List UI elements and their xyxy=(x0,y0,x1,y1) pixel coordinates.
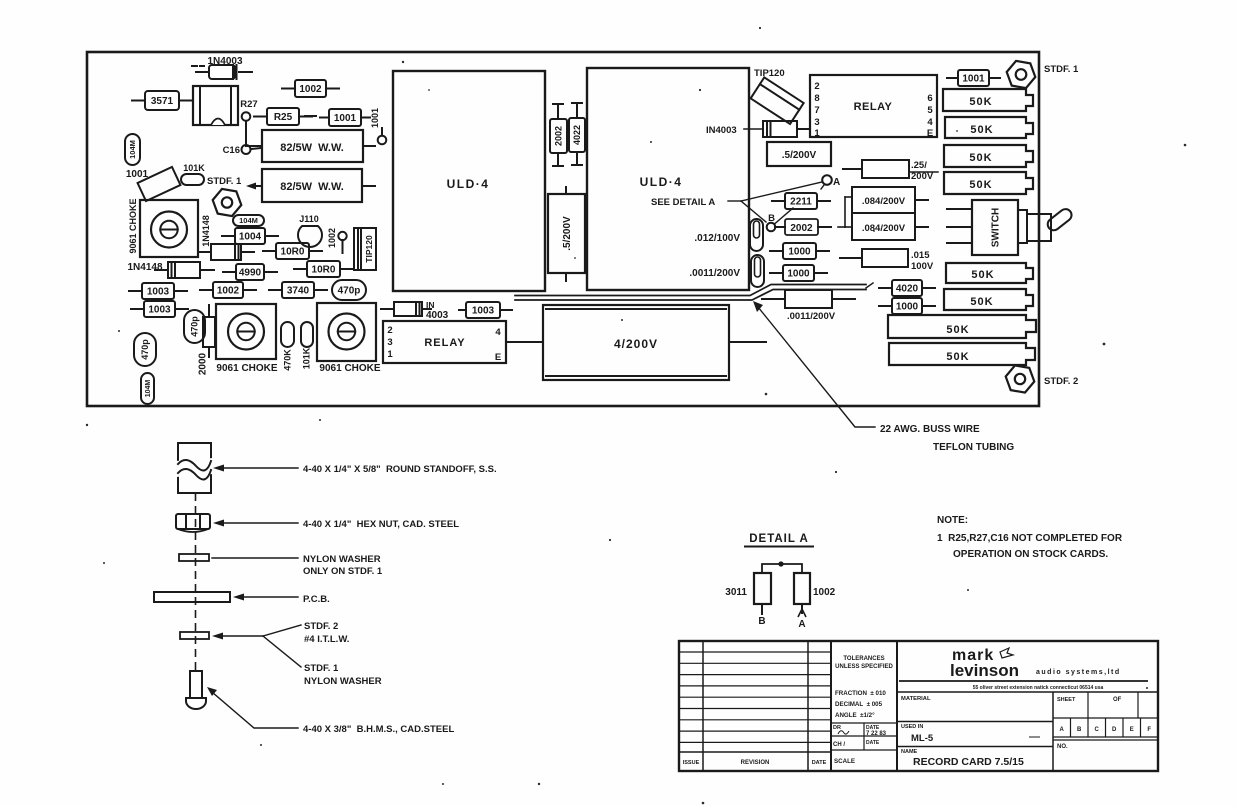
svg-text:50K: 50K xyxy=(946,324,969,336)
svg-text:STDF. 2: STDF. 2 xyxy=(1044,376,1078,387)
capacitor 104M (vertical, upper-left) xyxy=(125,134,140,165)
svg-text:4022: 4022 xyxy=(572,125,582,145)
resistor 82/5W W.W. (upper) xyxy=(246,130,375,162)
svg-text:1001: 1001 xyxy=(370,108,380,128)
standoff STDF.2 hole xyxy=(1006,365,1035,392)
svg-text:101K: 101K xyxy=(302,347,312,369)
svg-text:DATE: DATE xyxy=(866,740,880,746)
capacitor .5/200V (vertical) xyxy=(548,187,585,281)
diode 1001 (tilted) xyxy=(126,167,181,201)
choke 9061 (bottom-mid) xyxy=(317,303,381,374)
svg-text:470p: 470p xyxy=(140,339,150,360)
svg-text:B: B xyxy=(1077,727,1082,733)
svg-text:.5/200V: .5/200V xyxy=(782,150,817,161)
svg-text:.084/200V: .084/200V xyxy=(862,223,906,234)
nylon washer (upper) xyxy=(179,554,209,561)
resistor 10R0 (upper) xyxy=(263,243,322,259)
potentiometer 50K #7 (wide) xyxy=(888,315,1036,338)
svg-text:3: 3 xyxy=(814,117,819,128)
svg-text:D: D xyxy=(1112,727,1117,733)
svg-text:1N4148: 1N4148 xyxy=(201,215,211,247)
callout: NYLON WASHER ONLY ON STDF.1 xyxy=(212,554,383,577)
svg-text:104M: 104M xyxy=(128,140,137,159)
round standoff xyxy=(176,443,213,493)
svg-text:2: 2 xyxy=(387,325,392,336)
svg-text:3011: 3011 xyxy=(725,587,747,598)
resistor 2002 xyxy=(775,219,831,235)
svg-text:4/200V: 4/200V xyxy=(614,337,658,351)
callout: 4-40 X 3/8" B.H.M.S., CAD.STEEL xyxy=(207,687,454,735)
callout SEE DETAIL A xyxy=(651,182,822,222)
svg-text:100V: 100V xyxy=(911,261,934,272)
svg-text:1003: 1003 xyxy=(147,287,170,298)
node B (pad) xyxy=(767,208,793,231)
resistor 10R0 (lower) xyxy=(294,261,353,277)
svg-text:470p: 470p xyxy=(338,286,361,297)
capacitor 470K (vertical) xyxy=(281,322,294,347)
relay (bottom-left) pins 2 3 1 / 4 E xyxy=(383,321,543,363)
capacitor 470p (vertical, mid) xyxy=(184,310,205,343)
svg-text:NO.: NO. xyxy=(1057,744,1068,750)
capacitor (notched body) xyxy=(193,86,238,125)
transistor TIP120 (tilted, top-right) xyxy=(751,68,804,124)
DETAIL A heading xyxy=(745,533,813,547)
standoff STDF.1 hole xyxy=(1007,61,1036,88)
potentiometer 50K #5 xyxy=(946,263,1033,283)
revision table rows xyxy=(679,652,831,752)
svg-text:SWITCH: SWITCH xyxy=(991,208,1002,247)
resistor 1001 (top-right) xyxy=(947,70,1000,86)
resistor 3740 xyxy=(269,282,327,298)
svg-text:470p: 470p xyxy=(190,316,200,337)
svg-text:E: E xyxy=(495,352,501,363)
wire xyxy=(305,115,316,117)
capacitor 2000 xyxy=(198,305,215,375)
svg-text:audio systems,ltd: audio systems,ltd xyxy=(1036,669,1121,676)
title block frame xyxy=(679,641,1158,771)
svg-text:ULD·4: ULD·4 xyxy=(640,175,683,189)
svg-text:1001: 1001 xyxy=(962,74,985,85)
IC ULD-4 (left module) xyxy=(393,71,545,291)
capacitor .084/200V (upper) xyxy=(852,187,928,213)
lock washer (lower) xyxy=(180,632,209,639)
note text xyxy=(937,515,1123,560)
resistor 1002 (detail) xyxy=(794,573,836,613)
svg-text:TIP120: TIP120 xyxy=(754,68,785,79)
A-F letter cells xyxy=(1053,718,1158,737)
svg-text:1002: 1002 xyxy=(217,286,240,297)
svg-text:SEE DETAIL A: SEE DETAIL A xyxy=(651,197,715,208)
resistor 1000 (a) xyxy=(770,243,829,259)
svg-text:4-40 X 1/4" X 5/8" ROUND STAN: 4-40 X 1/4" X 5/8" ROUND STANDOFF, S.S. xyxy=(303,464,497,475)
svg-text:TIP120: TIP120 xyxy=(364,235,374,263)
svg-text:A: A xyxy=(798,619,805,630)
svg-text:NOTE:: NOTE: xyxy=(937,515,968,526)
capacitor 101K (vertical) xyxy=(301,322,313,347)
svg-text:1002: 1002 xyxy=(299,84,322,95)
capacitor .0011/200V (pill pair lower) xyxy=(689,255,764,287)
svg-text:OPERATION ON STOCK CARDS.: OPERATION ON STOCK CARDS. xyxy=(953,549,1108,560)
standoff hole STDF.1 (left) xyxy=(213,189,242,216)
resistor 1002 xyxy=(282,80,339,97)
svg-text:55 oliver street extension n: 55 oliver street extension natick connec… xyxy=(973,685,1104,691)
svg-text:9061 CHOKE: 9061 CHOKE xyxy=(128,198,138,253)
svg-text:E: E xyxy=(1130,727,1134,733)
svg-text:#4 I.T.L.W.: #4 I.T.L.W. xyxy=(304,634,349,645)
svg-text:4003: 4003 xyxy=(426,310,449,321)
wire bracket (left of .084 caps) xyxy=(838,197,852,227)
svg-text:USED IN: USED IN xyxy=(901,724,923,730)
node 1002 (vertical label with pad) xyxy=(327,228,346,253)
svg-text:REVISION: REVISION xyxy=(741,760,770,766)
hex nut xyxy=(176,514,210,532)
material / sheet cells xyxy=(901,692,1158,718)
svg-text:R25: R25 xyxy=(274,112,293,123)
svg-text:SHEET: SHEET xyxy=(1057,697,1076,703)
svg-text:50K: 50K xyxy=(946,351,969,363)
svg-text:NYLON WASHER: NYLON WASHER xyxy=(304,676,382,687)
svg-text:1N4148: 1N4148 xyxy=(127,262,162,273)
wire 22 AWG buss (double run) xyxy=(515,283,873,300)
no. cell xyxy=(1053,740,1158,750)
P.C.B. cross-section xyxy=(154,592,230,602)
centerline (dashed) xyxy=(195,493,197,672)
svg-text:DATE: DATE xyxy=(812,760,827,766)
svg-text:7: 7 xyxy=(814,105,819,116)
mark levinson logo xyxy=(897,647,1158,692)
svg-text:E: E xyxy=(927,128,933,139)
svg-text:DR: DR xyxy=(833,725,841,731)
node (junction dot) xyxy=(778,561,783,566)
svg-text:TEFLON TUBING: TEFLON TUBING xyxy=(933,442,1014,453)
svg-text:4: 4 xyxy=(495,327,501,338)
callout 22 AWG. BUSS WIRE / TEFLON TUBING xyxy=(753,301,1014,453)
capacitor .5/200V (top-right) xyxy=(767,142,831,166)
svg-text:RELAY: RELAY xyxy=(424,337,465,349)
capacitor .012/100V (pill pair upper) xyxy=(694,219,763,251)
svg-text:4990: 4990 xyxy=(239,268,262,279)
callout: 4-40 X 1/4" HEX NUT, CAD. STEEL xyxy=(213,519,459,530)
svg-text:1000: 1000 xyxy=(787,269,810,280)
resistor 1003 (row a) xyxy=(129,283,187,299)
svg-text:SCALE: SCALE xyxy=(834,758,855,765)
svg-text:C16: C16 xyxy=(223,145,240,156)
svg-text:1003: 1003 xyxy=(148,305,171,316)
svg-text:UNLESS SPECIFIED: UNLESS SPECIFIED xyxy=(835,664,893,670)
svg-text:.015: .015 xyxy=(911,250,930,261)
svg-text:22 AWG. BUSS WIRE: 22 AWG. BUSS WIRE xyxy=(880,424,980,435)
resistor 2211 xyxy=(772,193,830,209)
relay (top-right) pins 2 8 7 3 1 / 6 5 4 E xyxy=(810,75,937,139)
svg-text:200V: 200V xyxy=(911,171,934,182)
svg-text:STDF. 2: STDF. 2 xyxy=(304,621,338,632)
svg-text:DETAIL A: DETAIL A xyxy=(749,533,809,545)
svg-text:50K: 50K xyxy=(969,96,992,108)
transistor TIP120 (vertical) xyxy=(354,228,376,270)
svg-text:.012/100V: .012/100V xyxy=(694,233,740,244)
choke 9061 (upper-left) xyxy=(128,198,198,257)
resistor 82/5W W.W. (lower) xyxy=(246,169,375,202)
transistor J110 xyxy=(298,214,322,247)
svg-text:4: 4 xyxy=(927,117,933,128)
svg-text:ULD·4: ULD·4 xyxy=(447,177,490,191)
svg-text:B: B xyxy=(758,616,765,627)
diode (right of choke) xyxy=(198,244,254,260)
svg-text:R27: R27 xyxy=(240,99,257,110)
svg-text:NYLON WASHER: NYLON WASHER xyxy=(303,554,381,565)
svg-text:OF: OF xyxy=(1113,697,1122,703)
svg-text:DECIMAL ± 005: DECIMAL ± 005 xyxy=(835,701,883,708)
resistor 1002 (row a) xyxy=(200,282,256,298)
svg-text:3740: 3740 xyxy=(287,286,310,297)
svg-text:1003: 1003 xyxy=(472,306,495,317)
diode 1N4148 (lower) xyxy=(127,262,214,278)
resistor 1001 xyxy=(320,109,370,126)
resistor 3571 xyxy=(132,91,192,110)
resistor 4020 xyxy=(879,280,935,296)
potentiometer 50K #4 xyxy=(944,172,1033,194)
svg-text:STDF. 1: STDF. 1 xyxy=(304,663,339,674)
svg-text:C: C xyxy=(1095,727,1100,733)
svg-text:5: 5 xyxy=(927,105,933,116)
resistor R25 xyxy=(254,108,312,125)
choke 9061 (bottom-left) xyxy=(216,304,278,374)
node R27 xyxy=(240,99,257,145)
svg-text:IN: IN xyxy=(426,300,435,310)
capacitor .015/100V xyxy=(840,249,934,272)
svg-text:1001: 1001 xyxy=(334,113,357,124)
resistor 4990 xyxy=(223,264,277,280)
svg-text:1004: 1004 xyxy=(239,232,262,243)
svg-text:F: F xyxy=(1147,727,1151,733)
callout: P.C.B. xyxy=(233,594,330,606)
tolerances box xyxy=(831,723,897,750)
svg-text:1: 1 xyxy=(387,349,393,360)
capacitor .084/200V (lower) xyxy=(852,213,928,240)
potentiometer 50K #6 xyxy=(944,289,1033,310)
resistor 1000 (c) xyxy=(879,298,935,314)
wire (detail A top) xyxy=(762,564,802,573)
capacitor .0011/200V (bottom) xyxy=(762,290,855,322)
svg-text:2: 2 xyxy=(814,81,819,92)
svg-text:104M: 104M xyxy=(239,216,258,225)
svg-text:ANGLE ±1/2°: ANGLE ±1/2° xyxy=(835,712,875,719)
svg-text:2002: 2002 xyxy=(554,126,564,146)
svg-text:2002: 2002 xyxy=(790,223,813,234)
svg-text:50K: 50K xyxy=(969,179,992,191)
capacitor 470p (horizontal) xyxy=(332,280,366,300)
svg-text:IN4003: IN4003 xyxy=(706,125,737,136)
screw 4-40 B.H.M.S. xyxy=(186,671,206,709)
capacitor 470p (vertical, far-left) xyxy=(134,333,156,366)
svg-text:levinson: levinson xyxy=(950,661,1019,680)
svg-text:104M: 104M xyxy=(145,380,152,398)
svg-text:7 22 83: 7 22 83 xyxy=(866,731,887,737)
svg-text:2211: 2211 xyxy=(790,197,812,208)
resistor 1004 xyxy=(222,228,278,244)
svg-text:ISSUE: ISSUE xyxy=(683,760,700,766)
capacitor 104M (horizontal) xyxy=(233,215,264,226)
svg-text:ML-5: ML-5 xyxy=(911,733,934,744)
svg-text:MATERIAL: MATERIAL xyxy=(901,696,931,702)
svg-text:10R0: 10R0 xyxy=(312,265,336,276)
svg-text:2000: 2000 xyxy=(198,352,209,375)
diode 1N4003 (top) xyxy=(192,56,252,79)
svg-text:FRACTION ± 010: FRACTION ± 010 xyxy=(835,690,886,697)
svg-text:B: B xyxy=(768,213,775,224)
svg-text:9061 CHOKE: 9061 CHOKE xyxy=(319,363,380,374)
svg-text:A: A xyxy=(1060,727,1065,733)
callout: 4-40 X 1/4" X 5/8" ROUND STANDOFF, S.S. xyxy=(213,464,497,475)
node A (pad) xyxy=(821,175,840,189)
svg-text:101K: 101K xyxy=(183,163,205,173)
capacitor 4/200V xyxy=(543,305,766,380)
IC ULD-4 (right module) xyxy=(587,68,749,290)
svg-text:4-40 X 3/8" B.H.M.S., CAD.STE: 4-40 X 3/8" B.H.M.S., CAD.STEEL xyxy=(303,724,454,735)
resistor 1003 (bottom row) xyxy=(466,302,512,318)
node C16 xyxy=(223,145,261,156)
svg-text:CH /: CH / xyxy=(833,742,845,748)
svg-text:50K: 50K xyxy=(970,124,993,136)
svg-text:1002: 1002 xyxy=(327,228,337,248)
svg-text:.084/200V: .084/200V xyxy=(862,196,906,207)
potentiometer 50K #2 xyxy=(945,117,1033,138)
svg-text:3571: 3571 xyxy=(151,96,174,107)
diode IN4003 (top-right) xyxy=(706,121,810,137)
svg-text:50K: 50K xyxy=(971,269,994,281)
potentiometer 50K #1 xyxy=(943,89,1033,111)
name / RECORD CARD 7.5/15 xyxy=(897,747,1053,769)
resistor 1003 (row b) xyxy=(131,301,188,317)
svg-text:3: 3 xyxy=(387,337,392,348)
svg-text:50K: 50K xyxy=(969,152,992,164)
svg-text:1000: 1000 xyxy=(896,302,919,313)
resistor 1000 (b) xyxy=(770,265,827,281)
capacitor 101K pill xyxy=(181,163,205,185)
potentiometer 50K #8 (wide) xyxy=(889,343,1035,365)
svg-text:1000: 1000 xyxy=(788,247,811,258)
svg-text:1002: 1002 xyxy=(813,587,836,598)
svg-text:1 R25,R27,C16 NOT COMPLETED F: 1 R25,R27,C16 NOT COMPLETED FOR xyxy=(937,533,1123,544)
diode IN4003 (bottom row) xyxy=(381,300,466,321)
svg-text:RELAY: RELAY xyxy=(854,101,893,113)
svg-text:NAME: NAME xyxy=(901,749,918,755)
svg-text:A: A xyxy=(833,177,840,188)
svg-text:.25/: .25/ xyxy=(911,160,927,171)
PCB board outline xyxy=(87,52,1039,406)
svg-text:6: 6 xyxy=(927,93,932,104)
svg-text:TOLERANCES: TOLERANCES xyxy=(843,656,884,662)
switch with toggle xyxy=(947,200,1074,255)
svg-text:4-40 X 1/4" HEX NUT, CAD. STE: 4-40 X 1/4" HEX NUT, CAD. STEEL xyxy=(303,519,459,530)
svg-text:ONLY ON STDF. 1: ONLY ON STDF. 1 xyxy=(303,566,383,577)
svg-text:8: 8 xyxy=(814,93,819,104)
node 1001 (vertical label) xyxy=(370,108,386,144)
svg-text:82/5W W.W.: 82/5W W.W. xyxy=(280,142,344,154)
svg-text:.5/200V: .5/200V xyxy=(562,216,573,251)
svg-text:RECORD CARD 7.5/15: RECORD CARD 7.5/15 xyxy=(913,756,1024,768)
svg-text:STDF. 1: STDF. 1 xyxy=(207,176,242,187)
svg-text:.0011/200V: .0011/200V xyxy=(689,268,740,279)
callout fork: STDF.2 #4 I.T.L.W. / STDF.1 NYLON WASHER xyxy=(212,621,382,687)
svg-text:4020: 4020 xyxy=(896,284,919,295)
node A xyxy=(798,609,806,630)
svg-text:82/5W W.W.: 82/5W W.W. xyxy=(280,181,344,193)
resistor 2002 (vertical) xyxy=(550,104,567,166)
svg-text:50K: 50K xyxy=(970,296,993,308)
revision table labels ISSUE / REVISION / DATE xyxy=(683,760,827,766)
resistor 4022 (vertical) xyxy=(569,103,585,165)
capacitor 104M (vertical, bottom-left) xyxy=(141,373,154,404)
potentiometer 50K #3 xyxy=(944,145,1033,167)
svg-text:9061 CHOKE: 9061 CHOKE xyxy=(216,363,277,374)
svg-text:1: 1 xyxy=(814,128,820,139)
used in / ML-5 xyxy=(897,722,1053,745)
svg-text:J110: J110 xyxy=(299,214,319,224)
svg-text:10R0: 10R0 xyxy=(281,247,305,258)
svg-text:P.C.B.: P.C.B. xyxy=(303,594,330,605)
resistor 3011 xyxy=(725,573,771,614)
capacitor .25/200V xyxy=(843,160,938,182)
svg-text:470K: 470K xyxy=(283,349,293,371)
svg-text:STDF. 1: STDF. 1 xyxy=(1044,64,1079,75)
svg-text:.0011/200V: .0011/200V xyxy=(787,311,836,322)
